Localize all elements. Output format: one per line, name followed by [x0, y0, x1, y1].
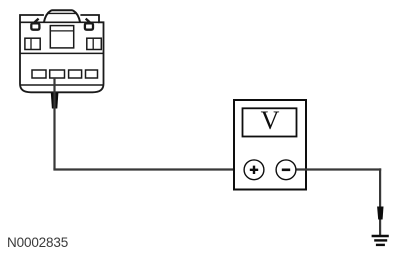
connector C1 body outline	[20, 15, 104, 92]
voltmeter box U1	[234, 100, 306, 190]
minus sign	[282, 169, 290, 172]
left cavity divider	[30, 38, 32, 49]
center latch window	[50, 26, 73, 48]
wire down to ground	[379, 168, 381, 235]
terminal slot 3	[69, 70, 82, 78]
terminal slot 1	[32, 70, 46, 78]
terminal slot 4	[86, 70, 98, 78]
ground pin blob	[377, 207, 383, 220]
terminal slot 2	[50, 70, 65, 78]
wire stub inside voltmeter right	[294, 168, 381, 170]
ground bar 3	[376, 244, 385, 246]
minus terminal circle	[276, 160, 296, 180]
center latch window divider	[50, 30, 73, 32]
left cavity square	[25, 38, 40, 49]
plus sign	[250, 166, 258, 174]
svg-text:N0002835: N0002835	[7, 235, 68, 250]
connector top second line	[20, 21, 99, 23]
ground bar 1	[372, 235, 389, 237]
right cavity divider	[92, 38, 94, 49]
connector latch tab inner line	[48, 12, 77, 14]
wire from pin down	[53, 78, 55, 170]
wire horizontal to voltmeter	[53, 168, 245, 170]
svg-text:V: V	[261, 106, 280, 135]
plus terminal circle	[244, 160, 264, 180]
connector inner bottom line	[20, 84, 104, 86]
right cavity square	[87, 38, 102, 49]
right hook	[85, 19, 93, 30]
voltmeter display window	[243, 108, 297, 136]
ground bar 2	[374, 239, 387, 241]
probe pin blob at connector	[51, 93, 59, 109]
connector latch tab	[44, 10, 80, 22]
connector mid line	[20, 52, 104, 54]
left hook	[31, 19, 39, 30]
